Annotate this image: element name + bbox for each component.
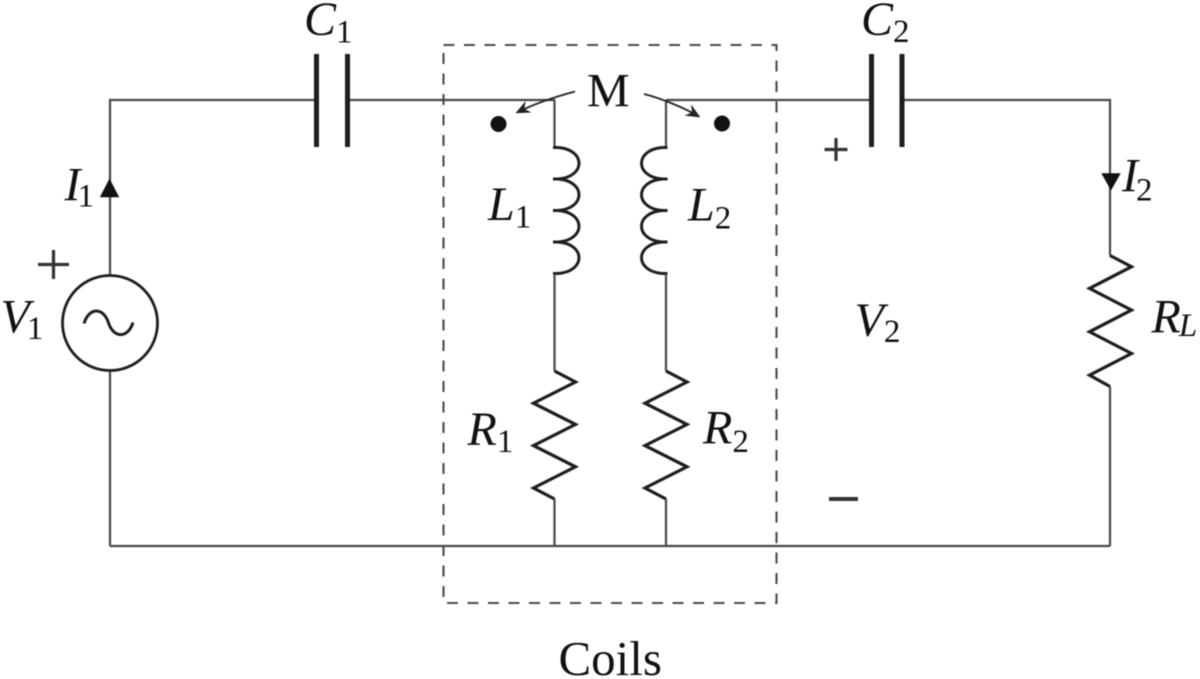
svg-text:I2: I2 [1121, 150, 1152, 209]
wire from R2 bottom to bottom rail [665, 499, 667, 546]
plus sign of V2 [825, 138, 848, 161]
wire between L2 and R2 [665, 274, 667, 372]
resistor R2 [645, 371, 687, 499]
svg-text:L2: L2 [687, 179, 731, 237]
wire from RL bottom to bottom-right corner [1109, 387, 1111, 547]
wire from R1 bottom to bottom rail [553, 499, 555, 546]
svg-text:L1: L1 [487, 178, 531, 236]
inductor L1 [553, 148, 579, 274]
current arrow I1 [100, 179, 119, 198]
capacitor C1 [317, 54, 348, 147]
resistor RL [1090, 256, 1132, 387]
wire from C2 right plate to top-right corner down to RL [905, 100, 1111, 256]
dashed coils box [444, 45, 777, 603]
source V1 sine wave [84, 311, 133, 335]
svg-text:RL: RL [1151, 291, 1198, 345]
svg-text:R2: R2 [702, 402, 749, 461]
svg-text:I1: I1 [64, 159, 94, 215]
wire from V1 bottom down to bottom-left corner [109, 371, 111, 547]
source V1 circle [63, 276, 158, 371]
resistor R1 [534, 371, 576, 499]
dot of L2 [714, 116, 730, 132]
minus sign of V2 [829, 497, 858, 501]
svg-text:V1: V1 [1, 291, 44, 348]
bottom rail wire [110, 545, 1110, 547]
dot of L1 [491, 116, 507, 132]
wire from L2 tap to C2 left plate [666, 99, 869, 101]
wire from C1 right plate to L1 top tap [350, 99, 555, 101]
plus sign of V1 [38, 250, 69, 279]
current arrow I2 [1101, 173, 1120, 190]
arrow from M to L1 dot [517, 92, 575, 113]
wire from V1 top up and right to C1 left plate [110, 100, 314, 276]
inductor L2 [642, 148, 668, 274]
svg-text:Coils: Coils [559, 631, 662, 679]
wire L1 top tap vertical [553, 100, 555, 148]
svg-text:M: M [587, 65, 630, 118]
wire L2 top tap vertical [665, 100, 667, 148]
capacitor C2 [872, 54, 903, 147]
svg-text:C1: C1 [304, 0, 353, 51]
svg-text:C2: C2 [861, 0, 910, 50]
svg-text:R1: R1 [467, 403, 514, 460]
svg-text:V2: V2 [855, 294, 901, 350]
arrow from M to L2 dot [644, 94, 699, 117]
wire between L1 and R1 [553, 274, 555, 372]
